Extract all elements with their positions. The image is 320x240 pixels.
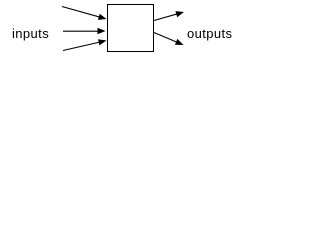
output arrow 1 head bbox=[175, 11, 184, 17]
box (process block) bbox=[108, 5, 154, 52]
label inputs bbox=[12, 26, 49, 41]
input arrow 1 wire bbox=[62, 7, 101, 18]
input arrow 1 head bbox=[98, 14, 107, 20]
label outputs bbox=[187, 26, 232, 41]
input arrow 2 head bbox=[98, 28, 106, 34]
input arrow 3 head bbox=[98, 39, 107, 45]
input arrow 3 wire bbox=[63, 42, 100, 51]
input arrow 2 wire bbox=[63, 30, 100, 32]
output arrow 2 head bbox=[175, 39, 184, 45]
output arrow 1 wire bbox=[154, 14, 178, 21]
output arrow 2 wire bbox=[154, 33, 177, 43]
